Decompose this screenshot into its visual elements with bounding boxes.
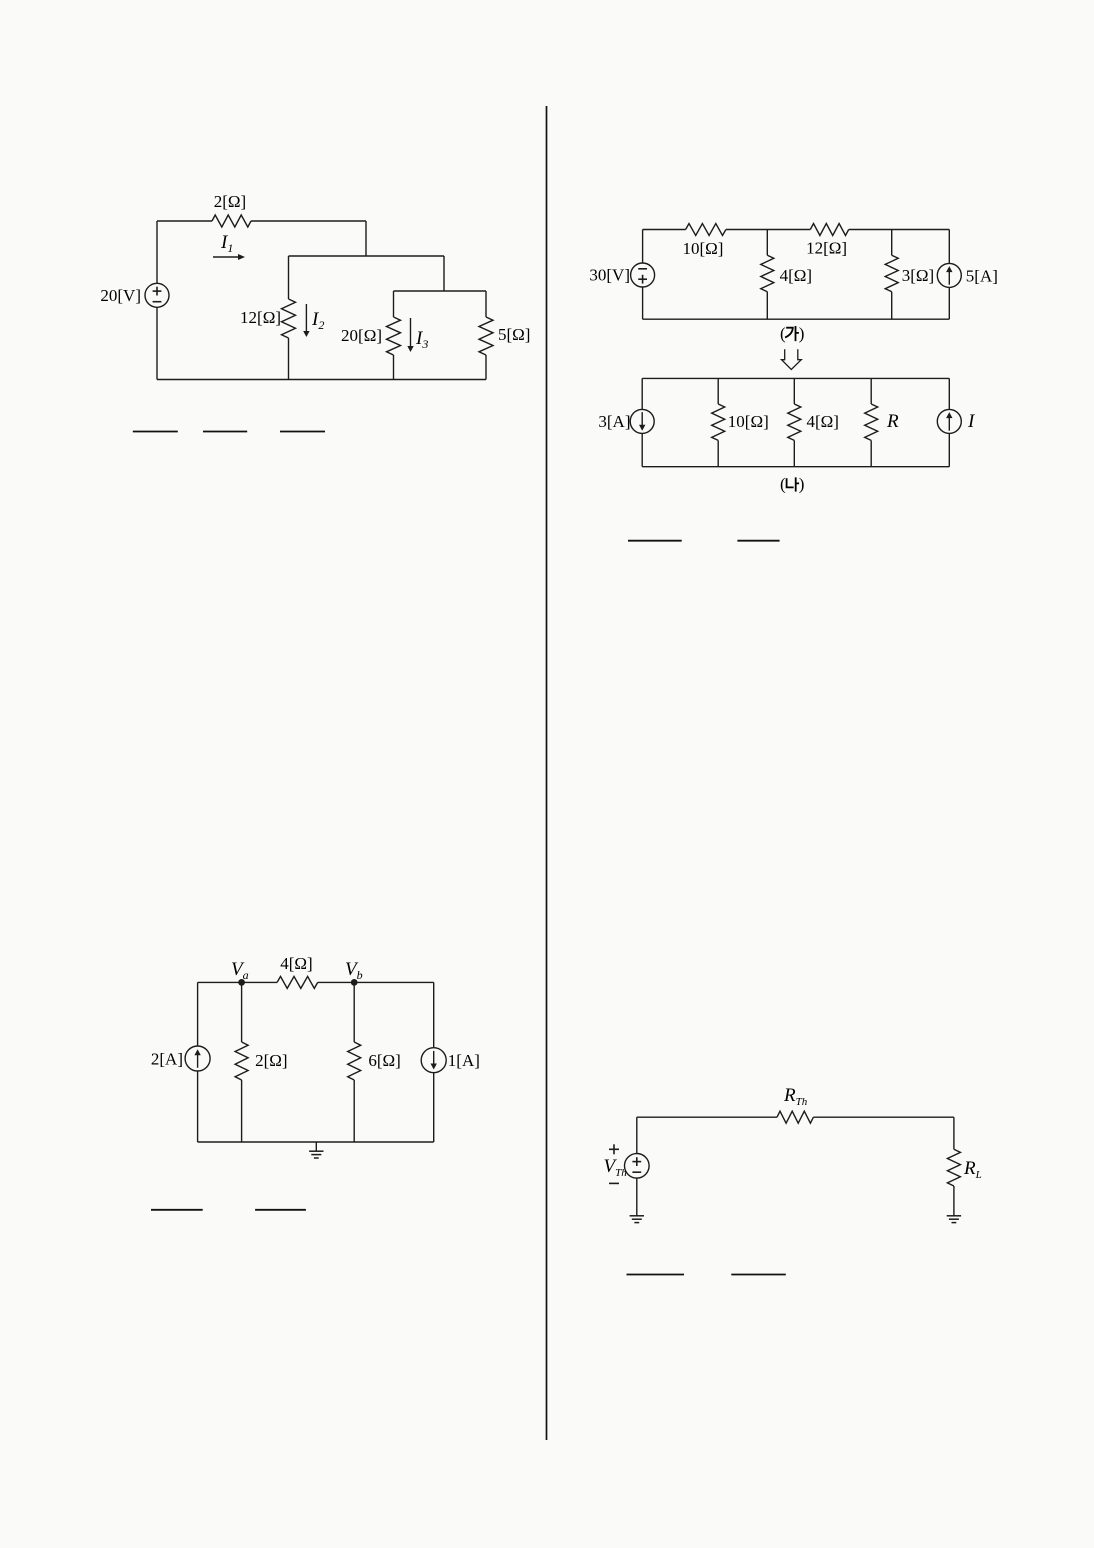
resistor 3[Omega] branch	[885, 230, 898, 320]
label 4[Omega] na	[807, 412, 839, 431]
resistor 2[Omega] branch c3	[235, 982, 248, 1142]
resistor 10[Omega]	[686, 224, 726, 236]
svg-text:2[Ω]: 2[Ω]	[255, 1051, 287, 1070]
wire th top segment 2	[813, 1116, 954, 1118]
answer blank 3	[280, 431, 325, 433]
wire na top	[642, 377, 949, 379]
svg-text:1[A]: 1[A]	[448, 1051, 480, 1070]
label 3[Omega]	[902, 266, 934, 285]
current label I2	[311, 309, 324, 332]
wire ga bottom	[643, 318, 950, 320]
resistor RTh	[777, 1111, 813, 1123]
svg-text:Vb: Vb	[345, 959, 363, 982]
label 10[Omega]	[683, 239, 724, 258]
wire th left vertical	[636, 1117, 638, 1153]
wire c3 top segment 2	[318, 981, 434, 983]
label 20[V]	[100, 286, 141, 305]
svg-text:6[Ω]: 6[Ω]	[368, 1051, 400, 1070]
label 4[Omega]	[780, 266, 812, 285]
wire left vertical bottom	[156, 307, 158, 379]
label - terminal	[609, 1182, 619, 1184]
answer blank na 2	[737, 540, 779, 542]
label + terminal	[609, 1144, 619, 1154]
resistor 4[Omega] na	[788, 378, 801, 466]
svg-text:4[Ω]: 4[Ω]	[807, 412, 839, 431]
ground c3	[309, 1142, 323, 1158]
svg-text:): )	[799, 324, 805, 343]
label (ga)	[780, 324, 804, 343]
answer blank 2	[203, 431, 247, 433]
svg-text:30[V]: 30[V]	[589, 266, 630, 285]
resistor 10[Omega] na	[712, 378, 725, 466]
svg-text:I: I	[967, 411, 976, 432]
svg-text:RTh: RTh	[783, 1085, 808, 1108]
voltage source 30[V]	[631, 263, 655, 287]
wire drop to tier3	[443, 256, 445, 291]
label 1[A]	[448, 1051, 480, 1070]
label (na)	[780, 475, 804, 494]
resistor 2[Omega]	[212, 215, 251, 227]
svg-text:2[Ω]: 2[Ω]	[214, 192, 246, 211]
wire bottom	[157, 379, 486, 381]
current label I1	[220, 232, 233, 255]
wire top left segment	[157, 220, 212, 222]
resistor 12[Omega] top	[810, 224, 848, 236]
svg-text:3[Ω]: 3[Ω]	[902, 266, 934, 285]
label 2[A]	[151, 1050, 183, 1069]
wire th right vertical	[953, 1117, 955, 1149]
ground th left	[630, 1178, 644, 1223]
svg-text:5[Ω]: 5[Ω]	[498, 325, 530, 344]
wire ga left vertical	[642, 230, 644, 320]
current source 3[A]	[630, 378, 654, 466]
resistor RL	[947, 1149, 960, 1186]
voltage source VTh	[625, 1154, 650, 1179]
wire th top segment 1	[637, 1116, 777, 1118]
resistor 4[Omega] c3	[277, 976, 318, 988]
svg-text:RL: RL	[963, 1158, 982, 1181]
wire top right segment	[251, 220, 366, 222]
svg-text:I3: I3	[415, 328, 428, 351]
label 12[Omega] top	[806, 239, 847, 258]
svg-text:20[V]: 20[V]	[100, 286, 141, 305]
wire c3 top segment 1	[198, 981, 278, 983]
label 2[Omega]	[214, 192, 246, 211]
svg-text:(: (	[780, 324, 786, 343]
label 10[Omega] na	[728, 412, 769, 431]
wire tier2 horizontal	[289, 255, 445, 257]
label 5[A]	[966, 266, 998, 285]
wire tier3 horizontal	[394, 290, 487, 292]
wire na bottom	[642, 466, 949, 468]
label 2[Omega] c3	[255, 1051, 287, 1070]
svg-text:10[Ω]: 10[Ω]	[683, 239, 724, 258]
label 3[A]	[598, 412, 630, 431]
current source 5[A]	[937, 230, 961, 320]
answer blank c3 2	[255, 1209, 306, 1211]
current arrow I1	[213, 254, 245, 260]
resistor R branch	[865, 378, 878, 466]
svg-text:12[Ω]: 12[Ω]	[240, 308, 281, 327]
label RL	[963, 1158, 982, 1181]
wire drop to tier2	[365, 221, 367, 256]
label 5[Omega]	[498, 325, 530, 344]
resistor 20[Omega] branch	[387, 291, 401, 380]
svg-text:(: (	[780, 475, 786, 494]
node Vb	[351, 979, 358, 986]
wire ga top segment 3	[849, 229, 950, 231]
svg-text:Va: Va	[231, 959, 249, 982]
svg-text:): )	[799, 475, 805, 494]
svg-text:12[Ω]: 12[Ω]	[806, 239, 847, 258]
label 20[Omega]	[341, 326, 382, 345]
ground th right	[947, 1186, 961, 1223]
svg-text:R: R	[886, 411, 899, 432]
label 4[Omega] c3	[280, 954, 312, 973]
svg-text:2[A]: 2[A]	[151, 1050, 183, 1069]
svg-text:3[A]: 3[A]	[598, 412, 630, 431]
current source 2[A]	[185, 982, 210, 1142]
label VTh	[604, 1156, 628, 1179]
node Va	[238, 979, 245, 986]
answer blank th 2	[731, 1274, 786, 1276]
label RTh	[783, 1085, 808, 1108]
svg-text:4[Ω]: 4[Ω]	[780, 266, 812, 285]
resistor 4[Omega] branch	[761, 230, 774, 320]
resistor 12[Omega] branch	[282, 256, 296, 380]
current arrow I3	[407, 318, 413, 352]
current source I	[937, 378, 961, 466]
svg-text:I1: I1	[220, 232, 233, 255]
wire ga top segment 2	[726, 229, 810, 231]
label Va	[231, 959, 249, 982]
answer blank th 1	[627, 1274, 685, 1276]
wire ga top segment 1	[643, 229, 686, 231]
column divider rule	[546, 106, 548, 1440]
current source 1[A]	[421, 982, 446, 1142]
answer blank c3 1	[151, 1209, 203, 1211]
svg-text:10[Ω]: 10[Ω]	[728, 412, 769, 431]
answer blank 1	[133, 431, 178, 433]
current arrow I2	[303, 304, 309, 337]
label I	[967, 411, 976, 432]
current label I3	[415, 328, 428, 351]
resistor 6[Omega] branch c3	[348, 982, 361, 1142]
svg-text:20[Ω]: 20[Ω]	[341, 326, 382, 345]
voltage source 20[V]	[145, 283, 169, 307]
label Vb	[345, 959, 363, 982]
svg-text:I2: I2	[311, 309, 324, 332]
transform double arrow	[782, 349, 802, 369]
resistor 5[Omega] branch	[479, 291, 493, 380]
svg-text:4[Ω]: 4[Ω]	[280, 954, 312, 973]
label 30[V]	[589, 266, 630, 285]
answer blank na 1	[628, 540, 682, 542]
label 12[Omega]	[240, 308, 281, 327]
svg-text:5[A]: 5[A]	[966, 266, 998, 285]
label R	[886, 411, 899, 432]
label 6[Omega] c3	[368, 1051, 400, 1070]
wire c3 bottom	[198, 1141, 434, 1143]
svg-text:VTh: VTh	[604, 1156, 628, 1179]
wire left vertical top	[156, 221, 158, 283]
